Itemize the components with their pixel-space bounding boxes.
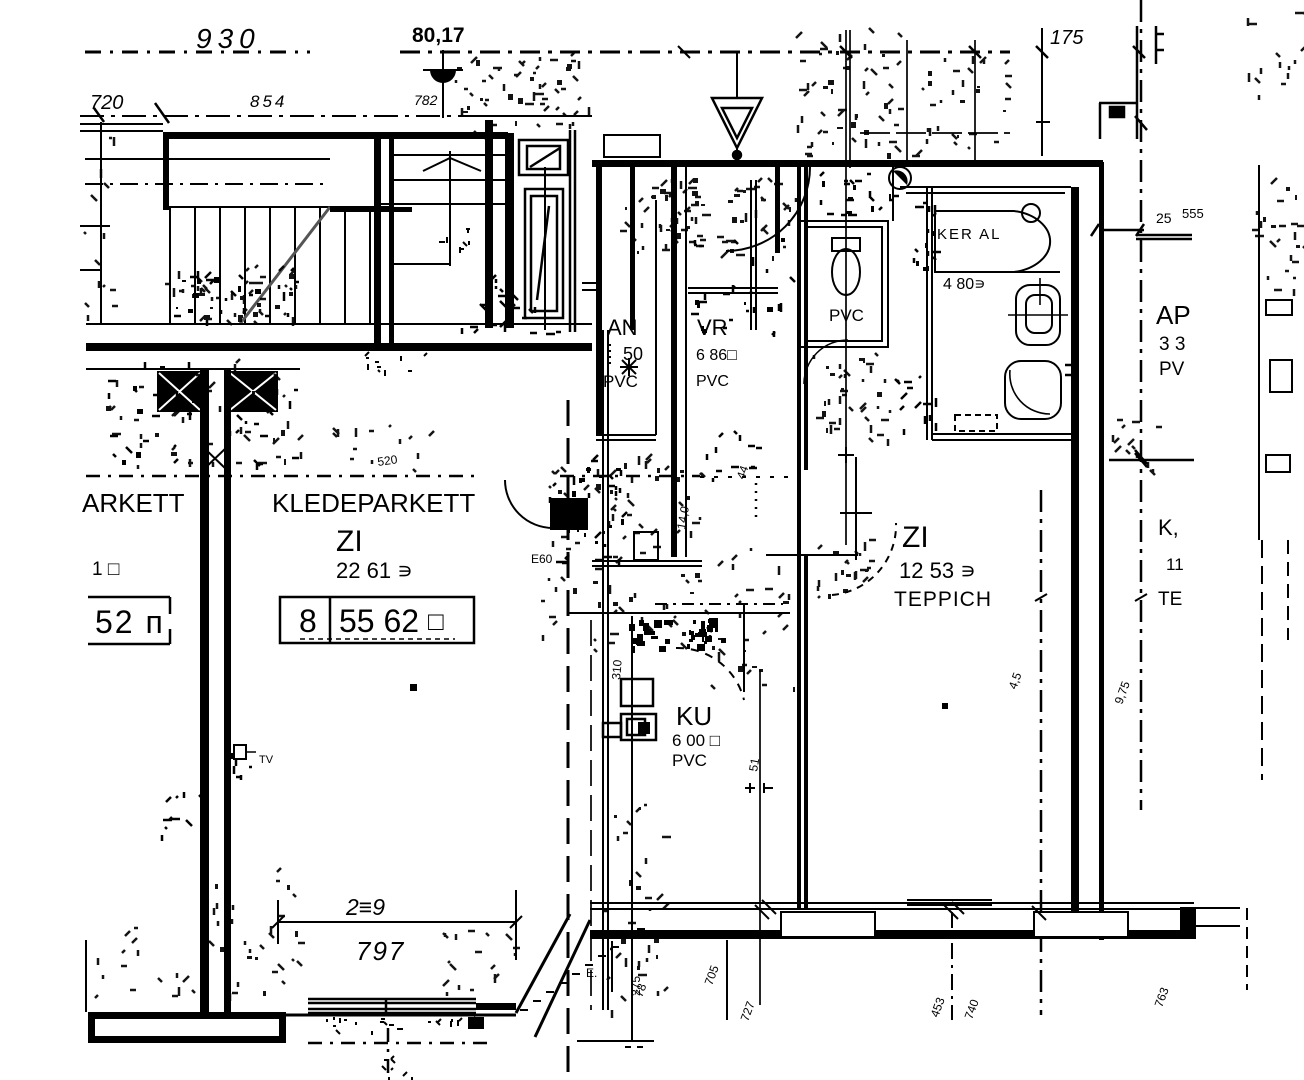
svg-text:175: 175	[1050, 27, 1084, 49]
svg-text:12 53 ∍: 12 53 ∍	[899, 558, 976, 583]
svg-text:25: 25	[1156, 210, 1172, 226]
svg-text:2≡9: 2≡9	[345, 894, 385, 920]
svg-text:PVC: PVC	[603, 372, 638, 391]
svg-text:KER AL: KER AL	[937, 226, 1002, 243]
svg-text:KLEDEPARKETT: KLEDEPARKETT	[272, 488, 475, 518]
svg-text:TEPPICH: TEPPICH	[894, 588, 992, 611]
svg-text:797: 797	[356, 936, 405, 966]
svg-text:854: 854	[250, 92, 287, 111]
svg-text:ARKETT: ARKETT	[82, 488, 185, 518]
svg-text:ZI: ZI	[336, 525, 363, 558]
svg-text:55 62: 55 62	[339, 603, 419, 639]
svg-text:6 00 □: 6 00 □	[672, 731, 720, 750]
svg-text:8: 8	[299, 603, 317, 639]
svg-text:□: □	[428, 606, 444, 636]
svg-text:6 86□: 6 86□	[696, 347, 737, 364]
svg-text:PVC: PVC	[696, 373, 729, 390]
svg-text:PV: PV	[1159, 359, 1185, 380]
svg-text:K,: K,	[1158, 515, 1179, 540]
svg-text:555: 555	[1182, 206, 1204, 221]
svg-text:4 80∍: 4 80∍	[943, 276, 986, 293]
svg-text:51: 51	[746, 757, 762, 773]
svg-text:PVC: PVC	[829, 306, 864, 325]
svg-text:50: 50	[623, 344, 643, 364]
svg-text:520: 520	[376, 452, 398, 469]
svg-text:720: 720	[90, 92, 123, 114]
svg-text:KU: KU	[676, 701, 712, 731]
svg-text:TV: TV	[259, 754, 274, 766]
svg-text:930: 930	[196, 23, 261, 54]
svg-text:11: 11	[1166, 555, 1184, 574]
svg-text:AP: AP	[1156, 300, 1191, 330]
svg-text:TE: TE	[1158, 589, 1182, 610]
svg-text:782: 782	[414, 92, 438, 108]
svg-text:22 61 ∍: 22 61 ∍	[336, 558, 413, 583]
svg-text:310: 310	[609, 659, 625, 680]
svg-text:ZI: ZI	[902, 521, 929, 554]
svg-text:52 п: 52 п	[95, 604, 165, 640]
svg-text:1 □: 1 □	[92, 559, 120, 580]
svg-text:AN: AN	[607, 315, 638, 340]
svg-text:E60: E60	[531, 552, 553, 566]
svg-text:80,17: 80,17	[412, 24, 465, 47]
svg-text:3 3: 3 3	[1159, 334, 1185, 355]
svg-text:PVC: PVC	[672, 751, 707, 770]
